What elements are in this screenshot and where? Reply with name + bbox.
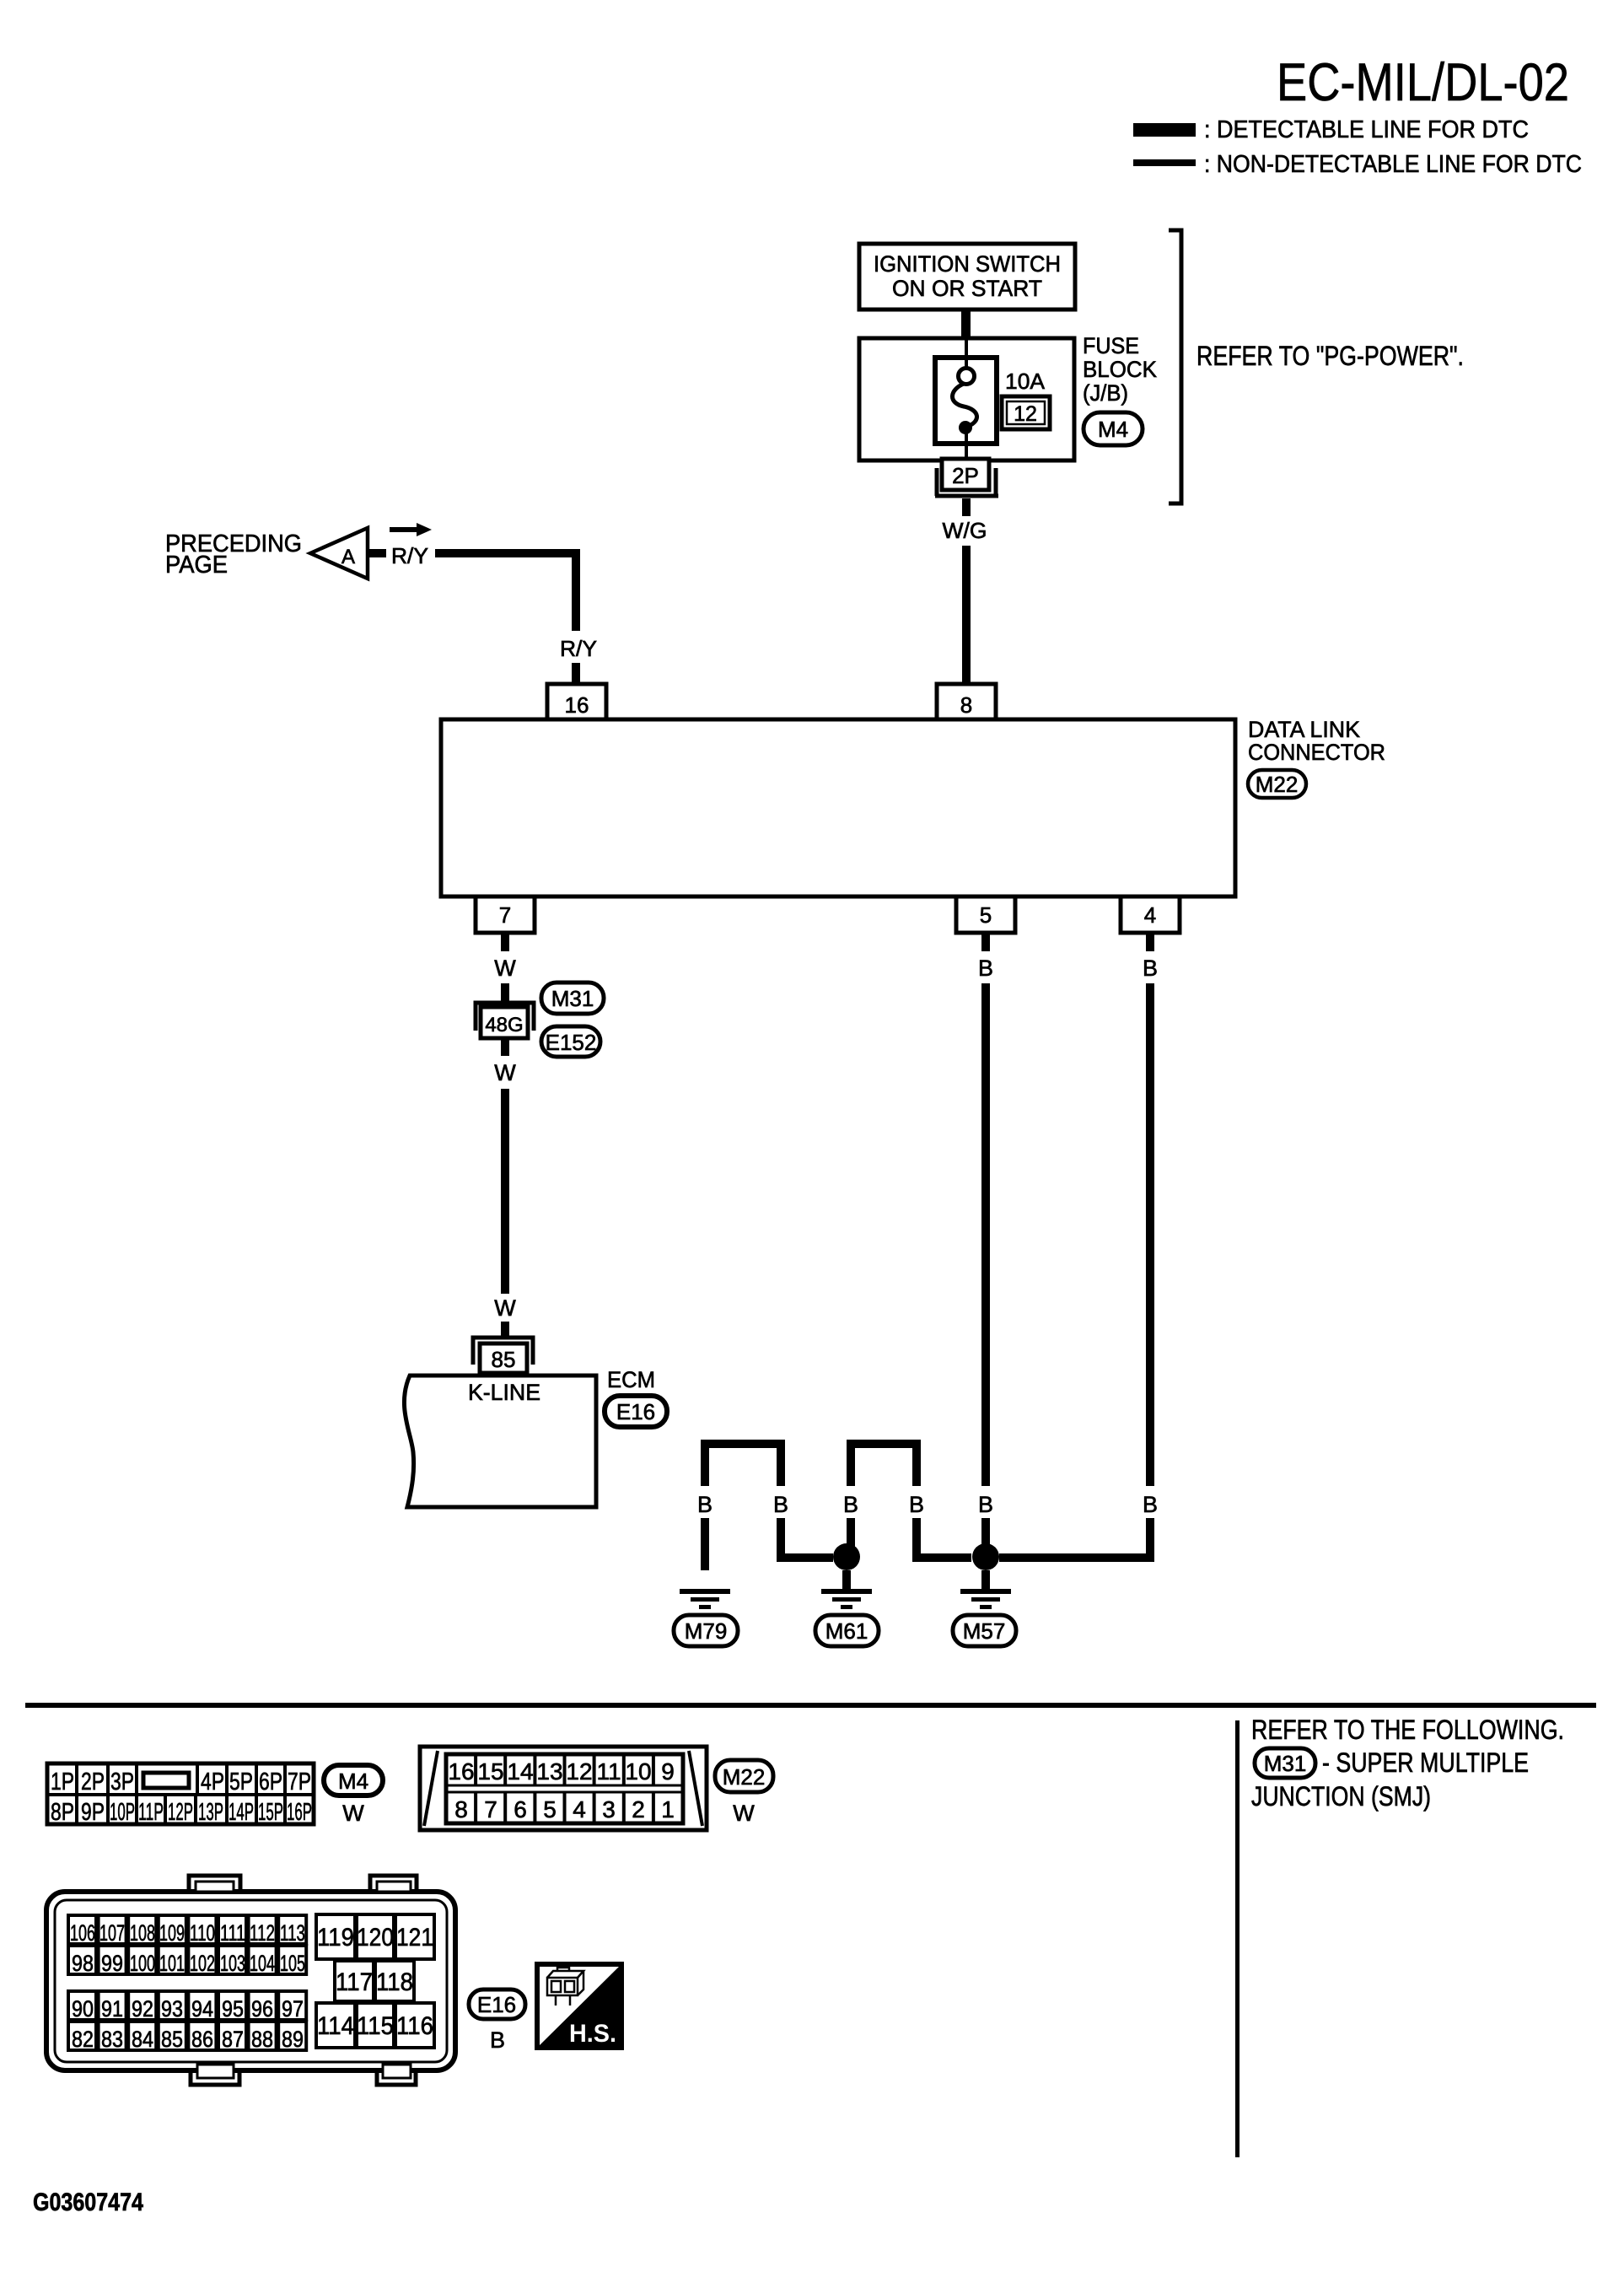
svg-text:108: 108 (130, 1920, 155, 1946)
svg-text:M61: M61 (825, 1618, 868, 1644)
svg-text:107: 107 (99, 1920, 125, 1946)
label DATA LINK CONNECTOR (1248, 717, 1385, 765)
ground symbol M57 (960, 1570, 1011, 1609)
svg-text:85: 85 (161, 2027, 183, 2052)
svg-text:2P: 2P (952, 463, 979, 488)
svg-text:M57: M57 (963, 1618, 1006, 1644)
bracket for PG-POWER note (1169, 230, 1181, 503)
wire pin4 to M57 junction (thick) (999, 1518, 1150, 1558)
svg-text:3: 3 (602, 1796, 616, 1822)
E16 pin grid rows 106-113 / 98-105 (68, 1915, 306, 1976)
svg-text:W/G: W/G (943, 518, 987, 543)
page arrow triangle A (310, 528, 368, 579)
E16 pin grid cells 117-118 (335, 1961, 414, 2001)
connector 2P box (942, 459, 989, 490)
svg-text:110: 110 (190, 1920, 215, 1946)
wire ignition switch to fuse block (thick) (961, 310, 971, 340)
svg-text:16P: 16P (287, 1799, 312, 1826)
svg-text:85: 85 (492, 1347, 516, 1372)
data link connector box M22 (441, 719, 1235, 896)
svg-text:112: 112 (250, 1920, 275, 1946)
ignition switch box (859, 244, 1075, 310)
svg-text:4: 4 (1144, 902, 1156, 928)
label PRECEDING PAGE (165, 530, 302, 579)
connector oval M79 (674, 1615, 738, 1646)
svg-text:H.S.: H.S. (569, 2020, 616, 2048)
svg-text:9: 9 (661, 1758, 675, 1785)
svg-text:6P: 6P (259, 1769, 282, 1796)
svg-text:M4: M4 (338, 1769, 368, 1794)
svg-text:5: 5 (543, 1796, 557, 1822)
wire R/Y vertical drop (thick) (572, 549, 580, 631)
svg-text:15P: 15P (258, 1799, 283, 1826)
svg-text:M31: M31 (551, 986, 594, 1011)
svg-text:B: B (843, 1492, 858, 1517)
arrow stub (368, 549, 386, 557)
DLC pin 7 bracket (476, 898, 535, 933)
DLC pin 5 bracket (956, 898, 1015, 933)
svg-text:E152: E152 (546, 1030, 597, 1055)
svg-text:M31: M31 (1264, 1751, 1307, 1776)
svg-text:14: 14 (507, 1758, 533, 1785)
svg-text:W: W (494, 1060, 516, 1085)
svg-text:10A: 10A (1005, 369, 1046, 394)
svg-text:(J/B): (J/B) (1083, 380, 1128, 406)
svg-text:B: B (978, 1492, 993, 1517)
legend: detectable line sample bar (1133, 123, 1196, 137)
svg-text:W: W (494, 1295, 516, 1321)
connector 48G bracket (476, 1003, 534, 1031)
svg-text:W: W (342, 1801, 364, 1826)
svg-text:1: 1 (661, 1796, 675, 1822)
wire R/Y horizontal run (thick) (435, 549, 580, 557)
DLC pin 4 bracket (1121, 898, 1180, 933)
E16 pin grid cells 114-116 (316, 2003, 434, 2048)
svg-text:W: W (494, 956, 516, 981)
wire 48G down (thick) (501, 1038, 509, 1056)
connector face E16 body (46, 1876, 455, 2085)
svg-text:- SUPER MULTIPLE: - SUPER MULTIPLE (1322, 1747, 1529, 1778)
svg-text:9P: 9P (81, 1799, 105, 1826)
wire pin4 down (thick) (1146, 934, 1154, 951)
svg-text:99: 99 (101, 1951, 123, 1976)
ground hook splice 2 (851, 1444, 917, 1486)
svg-text:88: 88 (251, 2027, 273, 2052)
svg-text:82: 82 (72, 2027, 94, 2052)
legend: non-detectable line sample bar (1133, 159, 1196, 166)
wire W to 48G (thick) (501, 983, 509, 1001)
svg-text:K-LINE: K-LINE (468, 1380, 540, 1405)
connector face M4 grid (47, 1763, 314, 1826)
wire into fuse (965, 340, 968, 368)
ECM pin 85 bracket (473, 1338, 533, 1365)
svg-text:121: 121 (396, 1924, 433, 1952)
svg-text:100: 100 (130, 1951, 155, 1976)
svg-text:ECM: ECM (607, 1367, 655, 1392)
svg-text:120: 120 (357, 1924, 394, 1952)
svg-text:13P: 13P (198, 1799, 223, 1826)
svg-text:4P: 4P (201, 1769, 224, 1796)
svg-text:DATA LINK: DATA LINK (1248, 717, 1360, 742)
connector 48G box (481, 1007, 528, 1038)
fuse block J/B box (859, 338, 1074, 460)
svg-text:89: 89 (282, 2027, 304, 2052)
long wire W down (thick) (501, 1089, 509, 1294)
svg-text:111: 111 (220, 1920, 245, 1946)
svg-text:REFER TO THE FOLLOWING.: REFER TO THE FOLLOWING. (1251, 1715, 1564, 1745)
fuse number box 12 (1002, 396, 1050, 429)
small direction arrow (390, 523, 432, 536)
long wire pin4 down (thick) (1146, 983, 1154, 1486)
H.S. logo (537, 1964, 621, 2048)
svg-text:10P: 10P (110, 1799, 135, 1826)
svg-text:8P: 8P (51, 1799, 74, 1826)
svg-text:2P: 2P (81, 1769, 105, 1796)
wire R/Y to DLC pin 16 (thick) (572, 663, 580, 683)
svg-text:R/Y: R/Y (391, 543, 428, 568)
svg-text:15: 15 (477, 1758, 503, 1785)
svg-text:117: 117 (336, 1968, 373, 1996)
connector oval M31 (541, 983, 604, 1014)
svg-text:102: 102 (190, 1951, 215, 1976)
junction dot M61 (833, 1543, 860, 1570)
svg-text:7: 7 (499, 902, 511, 928)
svg-text:91: 91 (101, 1996, 123, 2022)
wire hook2 left leg into M61 (thick) (847, 1518, 855, 1548)
svg-text:103: 103 (220, 1951, 245, 1976)
svg-text:11: 11 (596, 1758, 621, 1785)
svg-text:4: 4 (573, 1796, 586, 1822)
svg-text:B: B (909, 1492, 924, 1517)
svg-text:48G: 48G (485, 1014, 523, 1036)
ground symbol M79 (680, 1570, 730, 1609)
svg-text:86: 86 (191, 2027, 213, 2052)
connector oval M4 (face) (324, 1765, 383, 1796)
label FUSE BLOCK (J/B) (1083, 333, 1157, 406)
svg-text:M4: M4 (1098, 417, 1128, 442)
svg-text:3P: 3P (110, 1769, 134, 1796)
wire color B labels row (697, 1492, 1158, 1517)
svg-text:5: 5 (980, 902, 992, 928)
wire hook2 right leg to M57 junction (thick) (917, 1518, 971, 1558)
svg-text:2: 2 (632, 1796, 645, 1822)
wire hook1 left leg to M79 ground (thick) (701, 1518, 709, 1590)
svg-text:M22: M22 (723, 1764, 766, 1790)
svg-text:IGNITION SWITCH: IGNITION SWITCH (874, 251, 1061, 277)
svg-text:6: 6 (514, 1796, 527, 1822)
svg-text:118: 118 (376, 1968, 413, 1996)
svg-text:115: 115 (357, 2012, 394, 2040)
connector face M22 (420, 1747, 707, 1830)
svg-text:5P: 5P (229, 1769, 253, 1796)
svg-text:B: B (1143, 1492, 1158, 1517)
wire pin5 down (thick) (981, 934, 990, 951)
svg-text:: DETECTABLE LINE FOR DTC: : DETECTABLE LINE FOR DTC (1204, 116, 1529, 143)
svg-text:16: 16 (565, 692, 589, 718)
svg-text:92: 92 (132, 1996, 153, 2022)
svg-text:8: 8 (454, 1796, 468, 1822)
svg-text:90: 90 (72, 1996, 94, 2022)
svg-text:JUNCTION (SMJ): JUNCTION (SMJ) (1251, 1781, 1431, 1812)
wire hook1 right leg to M61 junction (thick) (781, 1518, 833, 1558)
svg-text:M22: M22 (1256, 772, 1299, 797)
svg-text:B: B (697, 1492, 713, 1517)
svg-text:16: 16 (448, 1758, 474, 1785)
svg-text:10: 10 (625, 1758, 651, 1785)
connector oval E16 (605, 1396, 667, 1427)
connector oval M31 (note) (1255, 1748, 1315, 1778)
wire pin7 down (thick) (501, 934, 509, 951)
ground hook splice 1 (705, 1444, 781, 1486)
svg-text:83: 83 (101, 2027, 123, 2052)
svg-text:97: 97 (282, 1996, 304, 2022)
connector oval M22 (diagram) (1248, 770, 1306, 798)
connector oval E16 (face) (469, 1989, 525, 2019)
junction dot M57 (972, 1543, 999, 1570)
ECM pin 85 box (480, 1343, 527, 1373)
fuse element circle (959, 369, 975, 385)
long wire pin5 down (thick) (981, 983, 990, 1486)
connector oval M61 (815, 1615, 879, 1646)
svg-text:ON OR START: ON OR START (892, 276, 1042, 301)
DLC pin 8 bracket (937, 684, 996, 719)
E16 pin grid rows 90-97 / 82-89 (68, 1991, 306, 2052)
svg-text:E16: E16 (477, 1992, 516, 2017)
svg-text:101: 101 (159, 1951, 185, 1976)
svg-text:96: 96 (251, 1996, 273, 2022)
wire 2P to W/G label (thick) (962, 498, 971, 516)
svg-text:119: 119 (317, 1924, 354, 1952)
svg-text:84: 84 (132, 2027, 153, 2052)
svg-text:109: 109 (159, 1920, 185, 1946)
horizontal separator line (25, 1703, 1596, 1708)
E16 pin grid cells 119-121 (316, 1914, 434, 1959)
svg-text:EC-MIL/DL-02: EC-MIL/DL-02 (1277, 53, 1569, 112)
svg-text:BLOCK: BLOCK (1083, 357, 1157, 382)
ECM box (wavy left edge) (404, 1376, 596, 1507)
svg-text:13: 13 (536, 1758, 562, 1785)
svg-text:12P: 12P (168, 1799, 193, 1826)
svg-text:12: 12 (566, 1758, 592, 1785)
DLC pin 16 bracket (547, 684, 606, 719)
connector oval M4 (1084, 412, 1143, 445)
svg-text:113: 113 (280, 1920, 305, 1946)
svg-text:106: 106 (70, 1920, 95, 1946)
svg-text:R/Y: R/Y (560, 636, 597, 661)
fuse F12 symbol box (935, 358, 997, 444)
svg-text:E16: E16 (616, 1399, 655, 1424)
vertical divider line (1235, 1720, 1240, 2157)
svg-text:7P: 7P (288, 1769, 311, 1796)
svg-text:: NON-DETECTABLE LINE FOR DTC: : NON-DETECTABLE LINE FOR DTC (1204, 151, 1582, 178)
svg-text:98: 98 (72, 1951, 94, 1976)
svg-text:14P: 14P (229, 1799, 254, 1826)
connector oval E152 (541, 1026, 600, 1057)
svg-text:M79: M79 (685, 1618, 728, 1644)
svg-text:95: 95 (222, 1996, 244, 2022)
wire out of fuse (965, 428, 968, 460)
svg-text:G03607474: G03607474 (33, 2189, 143, 2216)
svg-text:12: 12 (1014, 402, 1037, 426)
svg-text:PAGE: PAGE (165, 552, 228, 579)
svg-text:11P: 11P (138, 1799, 164, 1826)
svg-text:B: B (978, 956, 993, 981)
svg-text:1P: 1P (51, 1769, 74, 1796)
svg-text:105: 105 (280, 1951, 305, 1976)
connector oval M22 (face) (715, 1760, 773, 1792)
fuse element dot (959, 421, 972, 434)
svg-text:7: 7 (484, 1796, 497, 1822)
fuse element S-curve (952, 384, 976, 426)
svg-text:B: B (1143, 956, 1158, 981)
connector oval M57 (953, 1615, 1016, 1646)
svg-text:87: 87 (222, 2027, 244, 2052)
svg-text:93: 93 (161, 1996, 183, 2022)
svg-text:A: A (341, 546, 355, 568)
svg-text:CONNECTOR: CONNECTOR (1248, 740, 1385, 765)
wire W/G down to DLC pin 8 (thick) (962, 546, 971, 683)
wire W to pin 85 (thick) (501, 1322, 509, 1338)
ground symbol M61 (821, 1570, 872, 1609)
svg-text:104: 104 (250, 1951, 275, 1976)
svg-text:114: 114 (317, 2012, 354, 2040)
svg-text:116: 116 (396, 2012, 433, 2040)
svg-text:94: 94 (191, 1996, 213, 2022)
svg-text:REFER TO "PG-POWER".: REFER TO "PG-POWER". (1196, 341, 1464, 371)
svg-text:B: B (773, 1492, 788, 1517)
svg-text:FUSE: FUSE (1083, 333, 1139, 358)
connector 2P bracket (935, 468, 998, 496)
wire pin5 into M57 (thick) (981, 1518, 990, 1548)
svg-text:B: B (490, 2027, 505, 2053)
svg-text:8: 8 (960, 692, 972, 718)
svg-text:W: W (733, 1801, 755, 1826)
